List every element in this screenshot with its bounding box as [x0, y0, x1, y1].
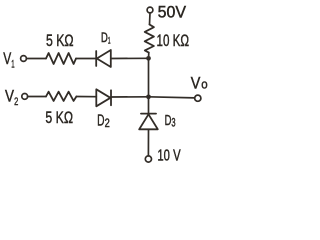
svg-text:5 KΩ: 5 KΩ — [46, 32, 74, 50]
wire — [148, 97, 150, 114]
wire — [111, 96, 149, 98]
svg-text:3: 3 — [171, 116, 175, 130]
wire — [148, 58, 150, 97]
svg-text:2: 2 — [14, 96, 18, 108]
svg-text:1: 1 — [11, 59, 14, 71]
svg-text:o: o — [201, 77, 207, 92]
svg-text:5 KΩ: 5 KΩ — [45, 109, 73, 127]
label D2 — [97, 113, 110, 131]
label Vo — [191, 75, 208, 93]
svg-text:10 V: 10 V — [157, 147, 181, 164]
label V2 — [5, 87, 18, 108]
input terminal V1 — [21, 56, 27, 62]
label D3 — [165, 112, 176, 129]
input terminal V2 — [22, 94, 28, 100]
wire — [149, 97, 195, 98]
label D1 — [101, 29, 111, 47]
label V1 — [3, 50, 15, 70]
wire — [148, 53, 150, 59]
power terminal 50V — [147, 7, 153, 13]
svg-text:1: 1 — [108, 35, 111, 46]
wire — [149, 13, 152, 25]
svg-text:10 KΩ: 10 KΩ — [157, 32, 190, 50]
svg-text:D: D — [165, 112, 172, 129]
wire — [76, 58, 96, 60]
resistor R2 — [46, 92, 76, 101]
output terminal Vo — [195, 95, 201, 101]
svg-text:D: D — [97, 113, 104, 130]
wire — [28, 96, 46, 98]
diode D1 — [96, 50, 111, 67]
resistor R3 10KΩ — [145, 25, 154, 53]
svg-text:V: V — [3, 50, 11, 68]
resistor R1 — [46, 53, 76, 64]
svg-text:2: 2 — [105, 118, 110, 130]
svg-text:50V: 50V — [158, 3, 187, 21]
wire — [147, 129, 149, 156]
wire — [26, 58, 46, 60]
svg-text:V: V — [191, 75, 201, 93]
wire — [111, 57, 149, 59]
wire — [76, 96, 96, 98]
junction node B — [146, 94, 151, 99]
diode D2 — [96, 89, 111, 106]
svg-text:V: V — [5, 87, 14, 105]
diode D3 — [139, 114, 158, 130]
junction node A — [146, 56, 151, 61]
supply terminal 10V — [145, 156, 151, 162]
